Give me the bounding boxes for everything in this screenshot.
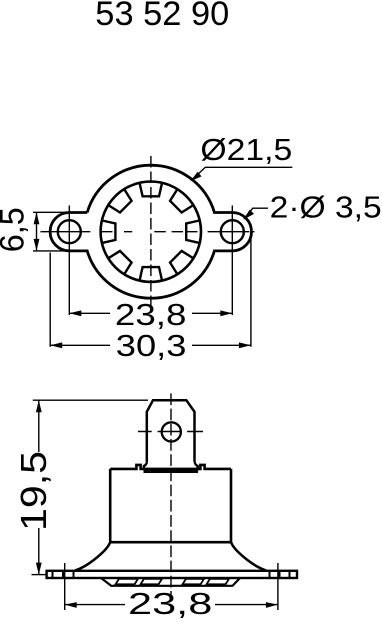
svg-text:23,8: 23,8 (115, 297, 186, 332)
castellation tab upper-left (109, 189, 134, 214)
skirt right (231, 542, 266, 570)
dimension 23,8 side view arrowhead right (266, 602, 278, 608)
blade root flare right (195, 462, 198, 470)
castellation tab lower-right (168, 249, 193, 274)
plate tick left 2 (62, 571, 64, 578)
castellation tab left (102, 221, 115, 243)
plate tick left 3 (73, 571, 75, 578)
body sides and bottom edge (110, 469, 231, 542)
dimension 30,3 dimension line (50, 344, 251, 346)
bottom lip outline (101, 578, 240, 586)
leader line Ø21,5 (192, 167, 293, 180)
castellation tab right (186, 221, 199, 243)
dimension 6,5 extension lines (33, 212, 86, 251)
leader arrowhead 2·Ø 3,5 (243, 210, 254, 220)
dimension 30,3 arrowhead right (239, 342, 251, 348)
dimension 19,5 arrowhead down (36, 563, 42, 575)
dimension 19,5 extension lines (32, 400, 149, 574)
dimension 23,8 top view dimension line (69, 312, 232, 314)
castellation tab bottom (140, 267, 162, 280)
skirt left (75, 542, 110, 570)
svg-text:30,3: 30,3 (116, 328, 187, 363)
dimension 23,8 side view extension lines (65, 563, 278, 610)
blade root base bar (144, 469, 199, 473)
base plate flange (47, 571, 297, 578)
lip dash 2 (141, 579, 163, 585)
leader line 2·Ø 3,5 (244, 208, 268, 219)
flange outline with mounting ears (50, 165, 251, 298)
castellation tab lower-left (109, 249, 134, 274)
inner circle of body (101, 182, 201, 282)
terminal hole horizontal centerline (138, 431, 203, 433)
dimension 6,5 arrowhead up (34, 212, 40, 224)
dimension 30,3 arrowhead left (50, 342, 62, 348)
lip dash 1 (116, 579, 139, 585)
dimension 23,8 top view extension lines (69, 206, 232, 316)
dimension 23,8 top view arrowhead right (220, 310, 232, 316)
svg-text:53 52 90: 53 52 90 (95, 0, 229, 33)
plate tick right 1 (269, 571, 271, 578)
terminal blade outline (147, 400, 195, 462)
top view horizontal centerline (41, 231, 255, 233)
svg-text:Ø21,5: Ø21,5 (200, 132, 292, 167)
dimension 19,5 dimension line (38, 400, 40, 574)
plate tick left 1 (52, 571, 54, 578)
dimension 30,3 extension lines (50, 233, 251, 347)
svg-text:6,5: 6,5 (0, 207, 32, 252)
lip dash 4 (207, 579, 230, 585)
dimension 6,5 dimension line (36, 212, 38, 251)
dimension 19,5 arrowhead up (36, 400, 42, 412)
dimension 23,8 top view arrowhead left (69, 310, 81, 316)
dimension 23,8 side view arrowhead left (65, 602, 77, 608)
dimension 23,8 side view dimension line (65, 604, 278, 606)
svg-text:23,8: 23,8 (128, 586, 212, 621)
plate tick right 3 (289, 571, 291, 578)
castellation tab top (140, 183, 162, 196)
leader arrowhead Ø21,5 (190, 172, 201, 182)
right ear mounting hole (221, 220, 244, 243)
lip dash 3 (183, 579, 205, 585)
svg-text:19,5: 19,5 (13, 451, 54, 531)
left ear mounting hole (58, 220, 81, 243)
castellation tab upper-right (168, 189, 193, 214)
svg-text:2·Ø 3,5: 2·Ø 3,5 (270, 189, 382, 224)
terminal blade hole (162, 422, 181, 441)
plate tick right 2 (279, 571, 281, 578)
blade root flare left (144, 462, 147, 470)
body top edge with weld bumps (110, 465, 231, 469)
top view vertical centerline (150, 156, 152, 308)
dimension 6,5 arrowhead down (34, 239, 40, 251)
side view vertical centerline (170, 393, 172, 595)
